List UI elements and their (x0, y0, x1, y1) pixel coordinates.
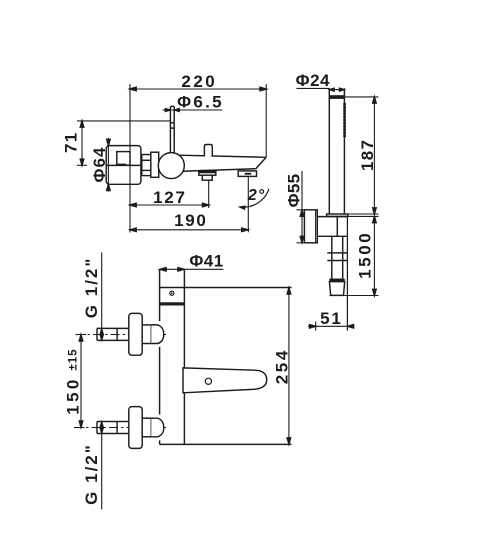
spout hole (205, 378, 211, 384)
svg-text:190: 190 (174, 211, 207, 230)
upper inlet dome (151, 325, 164, 344)
wire extension from aerator (247, 176, 249, 232)
svg-text:±15: ±15 (68, 348, 80, 370)
svg-text:2°: 2° (247, 187, 265, 204)
hose connector dark collar (329, 279, 344, 282)
svg-text:1500: 1500 (356, 231, 375, 279)
svg-text:220: 220 (181, 72, 217, 91)
hex adapter (side) (142, 155, 151, 176)
hose coupling lines (327, 253, 348, 261)
svg-text:187: 187 (358, 139, 377, 171)
dim 220 line (130, 88, 266, 90)
svg-text:G 1/2": G 1/2" (82, 443, 101, 505)
shower hose (332, 236, 343, 278)
body bottom line / ext 254 bottom (160, 443, 292, 445)
upper inlet pipe G1/2 (97, 328, 129, 340)
wire extension 51 left stub (315, 322, 317, 331)
aerator at spout end (238, 171, 256, 177)
dark body band (160, 302, 185, 305)
screw hole (170, 291, 174, 295)
svg-text:254: 254 (273, 348, 292, 384)
lower inlet hex nut (142, 418, 151, 437)
dim phi64 line (107, 138, 109, 192)
dark seal band (116, 164, 126, 166)
wire extension 1500 bottom (330, 295, 379, 297)
wire top reference line 71 (77, 120, 170, 122)
body separator line / ext 254 top (160, 287, 292, 289)
dim phi55 line (297, 171, 305, 243)
wire extension line right (spout end) (265, 84, 267, 157)
label G 1/2 upper leader (101, 252, 103, 340)
svg-text:Φ24: Φ24 (296, 71, 330, 90)
hose connector body (329, 282, 344, 296)
spout end bevel (256, 157, 266, 168)
svg-text:51: 51 (320, 309, 343, 328)
dim 71 line (77, 121, 87, 165)
shower pipe phi6.5 (170, 106, 174, 152)
dim 2 deg arc (240, 189, 269, 207)
wand bottom cap (327, 214, 348, 216)
wire extension arm right / 51 (346, 217, 348, 331)
shower wand body (329, 88, 344, 214)
upper inlet hex nut (142, 325, 151, 344)
body column left edge segments (159, 269, 161, 444)
lower inlet escutcheon flange (129, 407, 142, 449)
body column right edge (183, 269, 185, 444)
control knob circle (158, 153, 184, 179)
center line through escutcheon (106, 164, 142, 166)
spout (plan) (183, 368, 267, 393)
wand dotted texture (343, 103, 346, 137)
bracket plate edge line (315, 210, 317, 243)
dim 51 line (308, 325, 352, 327)
wire extension from outlet (208, 180, 210, 208)
shower outlet under spout (199, 171, 216, 181)
svg-text:150: 150 (64, 376, 83, 415)
svg-text:G 1/2": G 1/2" (82, 257, 101, 319)
wire extension 187 bottom (348, 213, 379, 215)
svg-text:Φ41: Φ41 (189, 252, 223, 271)
label G 1/2 lower leader (101, 422, 103, 510)
inlet square inside escutcheon (117, 152, 130, 166)
wire extension line left (wall plane) (129, 84, 131, 233)
lower inlet pipe G1/2 (97, 422, 129, 434)
spout top edge (179, 155, 266, 157)
wall escutcheon (side) (106, 146, 141, 185)
dim phi24 line (329, 89, 344, 91)
svg-text:127: 127 (153, 188, 186, 207)
wire extension 187 top (345, 96, 378, 98)
spout bottom edge (2 deg slope) (179, 169, 256, 172)
diverter knob on spout (204, 145, 212, 157)
bracket wall plate (304, 210, 317, 243)
lower inlet dome (151, 418, 164, 437)
upper inlet escutcheon flange (129, 313, 142, 355)
dim 150 line (74, 335, 86, 428)
cartridge section (151, 152, 159, 177)
dim 127 line (130, 204, 209, 206)
wand top cap (329, 95, 345, 99)
bracket arm (317, 217, 347, 237)
dim phi6.5 line (163, 109, 223, 111)
upper inlet center line (76, 334, 167, 336)
dim 187 line (373, 97, 375, 214)
wire extension 1500 top (348, 215, 379, 217)
dim phi24 leader underline (297, 87, 330, 89)
lower inlet center line (74, 427, 166, 429)
dim 1500 line (373, 216, 375, 295)
dim 254 line (288, 288, 290, 445)
dim phi41 line (body top) (160, 268, 224, 270)
dim 190 line (130, 229, 248, 231)
svg-text:71: 71 (62, 132, 81, 153)
svg-text:Φ6.5: Φ6.5 (177, 92, 224, 111)
svg-text:Φ55: Φ55 (285, 174, 304, 208)
